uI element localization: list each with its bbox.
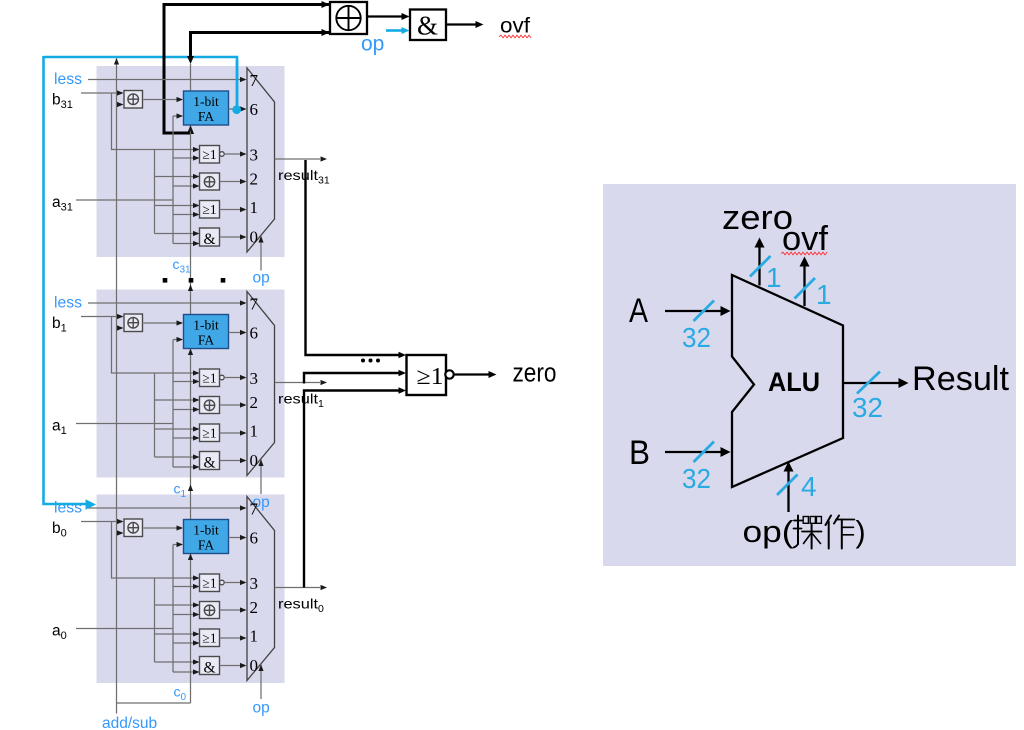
svg-text:≥1: ≥1 [202,426,216,441]
b-invert XOR gate (bit 0) [124,519,143,537]
svg-text:2: 2 [250,598,259,617]
OR gate (bit 0) [200,629,220,647]
wire b distribution bus (bit 1) [154,373,156,457]
svg-text:32: 32 [682,322,711,353]
wire op select -> mux (bit 1) [260,460,262,495]
wire carry-in c0 riser [190,554,192,704]
CJK glyph 操 (hand-drawn strokes) [794,516,822,549]
svg-text:≥1: ≥1 [417,364,444,390]
svg-text:op: op [361,33,384,56]
overflow XOR gate [330,2,367,34]
1-bit full adder FA (bit 31) [184,91,229,125]
wire b distribution bus (bit 31) [154,150,156,234]
result mux (bit 0) [247,497,275,681]
svg-text:0: 0 [250,656,259,675]
svg-text:op: op [253,270,270,287]
wire less -> mux input 7 (bit 0) [88,507,245,509]
wire B input (ALU) [665,451,723,453]
wire b1 -> b-invert XOR (bit 1) [81,316,123,318]
wire b-invert XOR -> full adder (bit 0) [144,527,183,529]
wire a distribution bus (bit 0) [172,545,174,673]
svg-text:zero: zero [513,357,557,387]
wire result0 output [275,587,321,589]
svg-text:1: 1 [766,262,782,293]
svg-text:B: B [629,434,650,472]
wire a distribution bus (bit 31) [172,116,174,244]
zero NOR gate [407,355,447,395]
wire add/sub -> b-invert XOR (bit 31) [117,104,123,106]
svg-text:&: & [203,455,215,472]
ellipsis dots between slice 31 and slice 1 [163,278,168,283]
wire NOR -> mux input 3 (bit 0) [224,582,245,584]
b-invert XOR gate (bit 31) [124,91,143,109]
wire b31 -> b-invert XOR (bit 31) [81,92,123,94]
wire a -> NOR gate input (bit 31) [173,157,199,159]
wire b-invert XOR -> full adder (bit 1) [144,322,183,324]
wire result31 -> zero NOR [306,160,401,355]
wire carry-in c31 tap -> overflow XOR input 1 [164,5,330,134]
wire a -> OR gate input (bit 1) [173,437,199,439]
wire FA sum -> mux input 6 (bit 0) [229,537,246,539]
wire a1 input (bit 1) [76,423,173,425]
wire NOR -> mux input 3 (bit 31) [224,153,245,155]
wire result0 -> zero NOR [304,391,400,588]
bus slash zero width 1 [750,256,771,277]
XOR gate (bit 0) [200,602,220,619]
svg-text:4: 4 [801,471,817,502]
wire FA sum -> mux input 6 (bit 1) [229,332,246,334]
wire AND -> mux input 0 (bit 31) [220,236,246,238]
svg-text:1: 1 [816,279,832,310]
svg-text:7: 7 [250,500,259,519]
wire add/sub -> b-invert XOR (bit 1) [117,327,123,329]
wire add/sub -> carry-in c0 [117,702,191,704]
wire a -> XOR gate input (bit 0) [173,614,199,616]
wire add/sub -> b-invert XOR (bit 0) [117,532,123,534]
svg-text:1-bit: 1-bit [193,523,219,538]
wire XOR -> mux input 2 (bit 0) [220,609,246,611]
svg-text:≥1: ≥1 [202,631,216,646]
svg-text:FA: FA [198,109,215,124]
svg-text:): ) [856,515,866,549]
overflow AND gate [410,10,446,41]
result mux (bit 31) [247,68,275,252]
wire a0 input (bit 0) [76,628,173,630]
svg-text:&: & [417,11,438,41]
bus slash Result width 32 [857,372,880,394]
wire b0 -> b-invert XOR (bit 0) [81,521,123,523]
svg-text:3: 3 [250,574,259,593]
svg-text:≥1: ≥1 [202,147,216,162]
wire a -> NOR gate input (bit 1) [173,381,199,383]
wire b -> AND gate input (bit 31) [155,233,199,235]
svg-text:7: 7 [250,295,259,314]
svg-text:≥1: ≥1 [202,202,216,217]
1-bit full adder FA (bit 1) [184,315,229,349]
wire op control input (ALU) [787,470,789,512]
svg-text:≥1: ≥1 [202,370,216,385]
svg-text:32: 32 [852,392,883,423]
OR gate (bit 31) [200,201,220,219]
wire b -> OR gate input (bit 31) [155,205,199,207]
svg-text:1: 1 [250,422,259,441]
svg-text:less: less [54,295,82,312]
svg-text:less: less [54,500,82,517]
svg-text:3: 3 [250,369,259,388]
wire AND -> mux input 0 (bit 1) [220,460,246,462]
OR gate (bit 1) [200,424,220,442]
wire b -> OR gate input (bit 1) [155,428,199,430]
wire slt path: left vertical run to less0 (cyan) [44,56,87,504]
svg-text:A: A [629,292,648,330]
bus slash ovf width 1 [795,278,816,299]
wire A input (ALU) [665,310,723,312]
bit-slice 1: lavender panel [97,290,285,478]
wire b branch to NOR gate (bit 31) [112,93,199,150]
wire result1 output [275,382,321,384]
wire b branch to NOR gate (bit 0) [112,522,199,579]
svg-text:ovf: ovf [782,220,829,258]
svg-text:less: less [54,71,82,88]
svg-text:≥1: ≥1 [202,575,216,590]
wire b branch to NOR gate (bit 1) [112,317,199,374]
XOR gate (bit 31) [200,173,220,190]
1-bit full adder FA (bit 0) [184,520,229,554]
wire less -> mux input 7 (bit 1) [88,302,245,304]
wire OR -> mux input 1 (bit 1) [220,432,246,434]
wire b-invert XOR -> full adder (bit 31) [144,99,183,101]
wire b -> AND gate input (bit 1) [155,456,199,458]
wire op select -> mux (bit 31) [260,236,262,271]
XOR gate (bit 1) [200,397,220,414]
wire b distribution bus (bit 0) [154,578,156,662]
CJK glyph 作 (hand-drawn strokes) [826,516,855,549]
wire a -> full adder (bit 1) [173,339,182,341]
wire OR -> mux input 1 (bit 0) [220,637,246,639]
svg-text:6: 6 [250,100,259,119]
wire a -> XOR gate input (bit 1) [173,409,199,411]
wire slt vertical at mux (cyan, overdraw) [236,60,239,106]
NOR gate (bit 1) [200,369,220,387]
spellcheck squiggle under ovf (ALU) [781,252,827,255]
svg-text:0: 0 [250,451,259,470]
svg-text:1: 1 [250,198,259,217]
wire add/sub control [116,59,118,714]
wire carry-out c32 tap -> overflow XOR input 2 [191,33,331,58]
wire a -> OR gate input (bit 31) [173,214,199,216]
svg-text:&: & [203,660,215,677]
wire a distribution bus (bit 1) [172,340,174,468]
wire slt path: sign bit tap (cyan) [44,57,238,106]
wire b -> XOR gate input (bit 31) [155,176,199,178]
node sign-bit junction dot (cyan) [232,105,241,114]
wire XOR -> AND gate (ovf) [367,15,402,17]
AND gate (bit 31) [200,228,220,246]
svg-text:ovf: ovf [500,15,530,38]
wire b -> AND gate input (bit 0) [155,661,199,663]
wire op -> AND gate (cyan) [386,29,402,32]
wire b -> XOR gate input (bit 0) [155,604,199,606]
spellcheck squiggle under ovf (top) [499,35,531,38]
wire a -> full adder (bit 31) [173,115,182,117]
b-invert XOR gate (bit 1) [124,314,143,332]
svg-text:ALU: ALU [768,367,820,397]
wire a -> OR gate input (bit 0) [173,642,199,644]
svg-text:32: 32 [682,463,711,494]
ellipsis dots before zero NOR [361,359,365,363]
svg-text:add/sub: add/sub [102,715,157,730]
result mux (bit 1) [247,292,275,476]
wire a -> AND gate input (bit 31) [173,243,199,245]
bit-slice 31: lavender panel [97,66,285,257]
NOR gate (bit 31) [200,146,220,164]
wire b -> OR gate input (bit 0) [155,633,199,635]
wire AND -> mux input 0 (bit 0) [220,665,246,667]
wire XOR -> mux input 2 (bit 1) [220,404,246,406]
zero NOR output bubble [445,370,453,378]
wire less -> mux input 7 (bit 31) [88,79,245,81]
wire op select -> mux (bit 0) [260,665,262,700]
ALU overview: lavender panel [603,184,1016,566]
ALU block symbol U1 [732,275,843,487]
wire zero output (ALU) [758,247,760,286]
wire a -> XOR gate input (bit 31) [173,185,199,187]
svg-text:0: 0 [250,228,259,247]
svg-text:1-bit: 1-bit [193,318,219,333]
wire result1 -> zero NOR [304,373,400,384]
NOR gate (bit 0) [200,574,220,592]
svg-text:2: 2 [250,393,259,412]
svg-text:1-bit: 1-bit [193,94,219,109]
svg-text:6: 6 [250,324,259,343]
wire zero output [454,373,490,375]
wire carry above FA31 to overflow tap [190,64,192,91]
AND gate (bit 1) [200,452,220,470]
wire carry chain c31 (slice1 FA top -> slice31 FA bottom) [190,125,192,315]
wire Result output (ALU) [843,382,901,384]
svg-text:3: 3 [250,146,259,165]
wire b -> XOR gate input (bit 1) [155,399,199,401]
wire ovf output (ALU) [803,266,805,306]
AND gate (bit 0) [200,657,220,675]
wire OR -> mux input 1 (bit 31) [220,209,246,211]
wire slt arrow into less0 (cyan) [86,499,97,510]
wire FA sum -> mux input 6 (bit 31) [229,108,246,110]
svg-text:&: & [203,231,215,248]
wire a -> NOR gate input (bit 0) [173,586,199,588]
bit-slice 0: lavender panel [97,495,285,684]
wire AND -> ovf [446,23,477,25]
bus slash B width 32 [694,442,715,463]
wire result31 output [275,158,321,160]
wire a -> AND gate input (bit 1) [173,466,199,468]
svg-text:7: 7 [250,71,259,90]
svg-text:FA: FA [198,538,215,553]
svg-text:op: op [253,700,270,717]
wire XOR -> mux input 2 (bit 31) [220,181,246,183]
bus slash A width 32 [694,301,715,322]
wire a -> AND gate input (bit 0) [173,671,199,673]
wire a -> full adder (bit 0) [173,544,182,546]
svg-text:2: 2 [250,170,259,189]
bus slash op width 4 [777,475,798,496]
svg-text:FA: FA [198,333,215,348]
wire a31 input (bit 31) [76,199,173,201]
wire NOR -> mux input 3 (bit 1) [224,377,245,379]
svg-text:Result: Result [912,360,1010,398]
svg-text:op(: op( [743,515,794,549]
svg-text:6: 6 [250,529,259,548]
svg-text:1: 1 [250,627,259,646]
wire carry chain c1 (slice0 FA top -> slice1 FA bottom) [190,349,192,520]
